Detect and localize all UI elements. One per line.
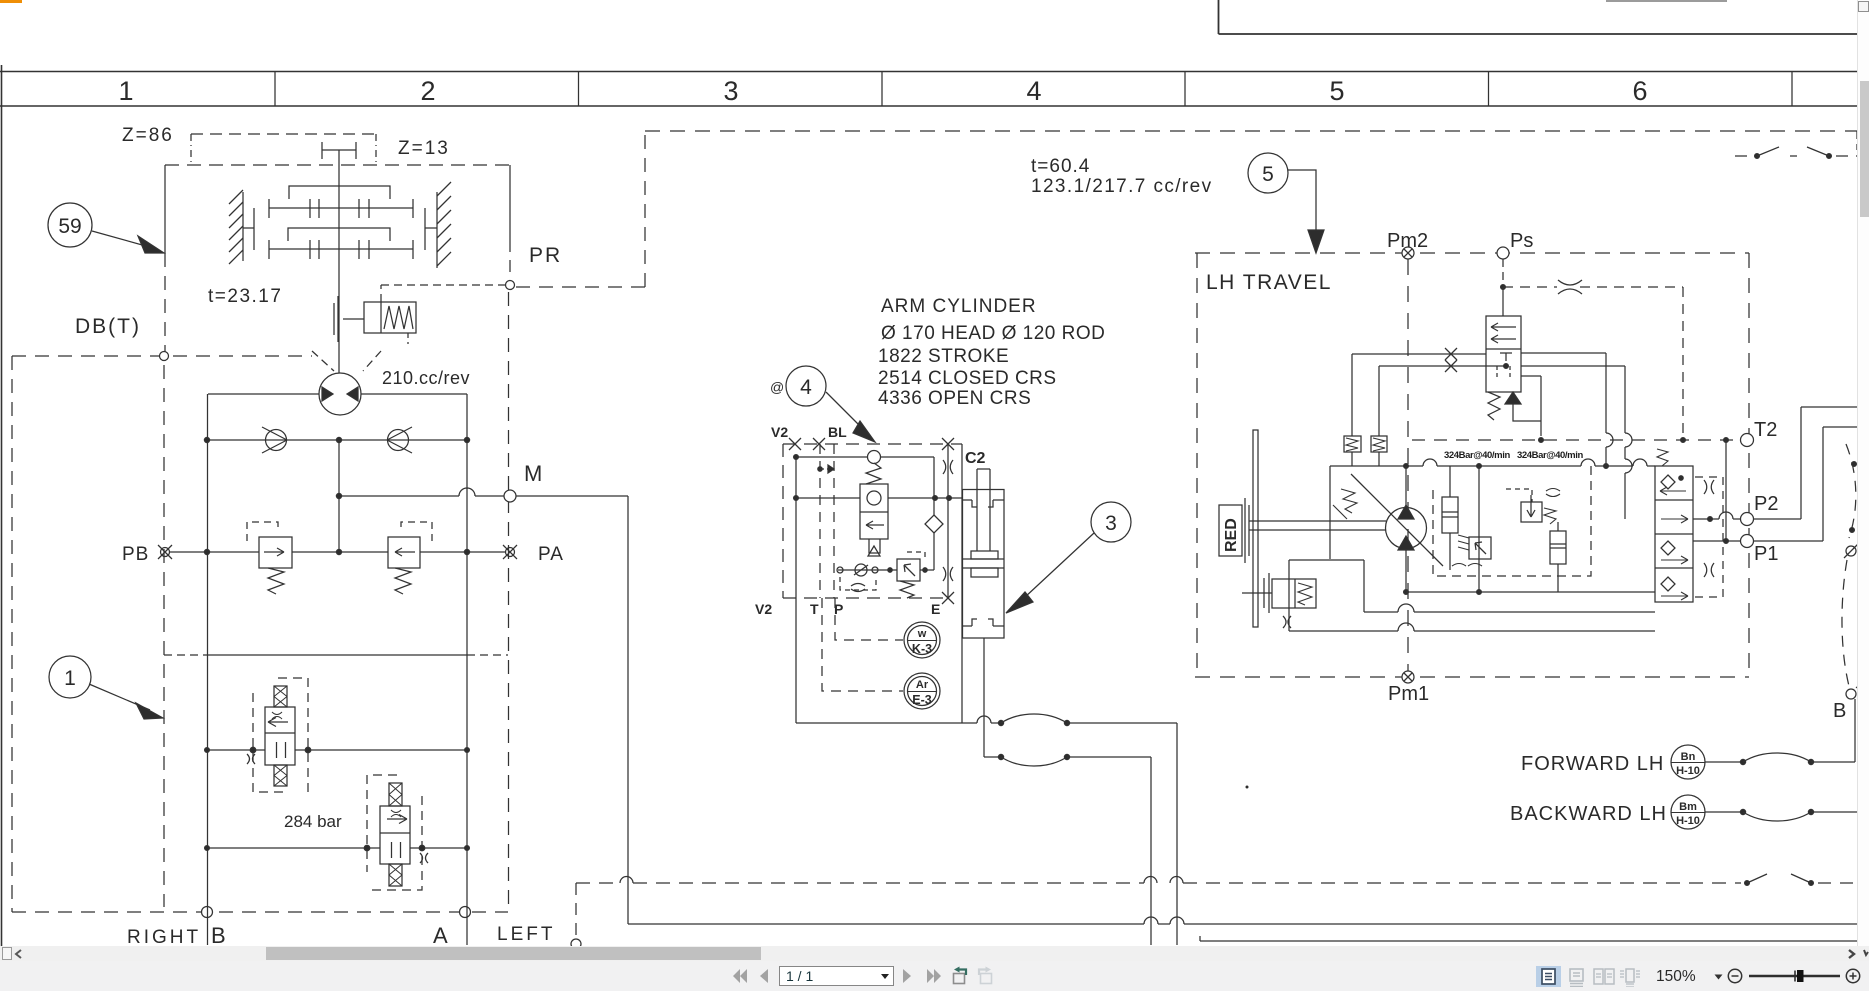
toolbar: last page button	[925, 967, 943, 985]
filter symbol	[925, 515, 943, 570]
T2 riser	[1725, 440, 1727, 541]
top right switch line	[1735, 147, 1869, 158]
toolbar background	[0, 961, 1869, 991]
port PB symbol	[158, 545, 172, 559]
torque limiter	[334, 296, 416, 342]
svg-text:T2: T2	[1754, 419, 1777, 441]
svg-text:@: @	[770, 379, 784, 395]
LH travel dashed envelope	[1195, 253, 1749, 677]
svg-text:B: B	[1833, 700, 1846, 722]
pilot control lines	[1352, 348, 1508, 436]
svg-text:3: 3	[723, 76, 738, 106]
vertical scrollbar track	[1857, 0, 1869, 947]
svg-text:324Bar@40/min: 324Bar@40/min	[1444, 450, 1510, 461]
port P2	[1741, 513, 1754, 526]
arm block top bypass line with check	[794, 451, 934, 516]
block1 inner dashed border	[163, 365, 165, 907]
brake pilot loop	[1289, 560, 1364, 631]
svg-text:LH TRAVEL: LH TRAVEL	[1206, 271, 1332, 294]
svg-text:P1: P1	[1754, 543, 1778, 565]
right housing wall hatch	[425, 182, 451, 268]
block1 bottom dashed border	[12, 911, 508, 913]
wire drop right 1	[1176, 723, 1178, 945]
RED tag	[1219, 498, 1249, 563]
toolbar: continuous view	[1564, 966, 1589, 987]
pump case drain dashed V	[312, 351, 381, 371]
horizontal scrollbar thumb	[266, 947, 761, 960]
toolbar: prev view icon	[949, 966, 969, 986]
svg-text:Ar: Ar	[916, 679, 929, 691]
svg-text:Z=86: Z=86	[122, 125, 174, 146]
block1 right dashed border	[508, 292, 510, 907]
svg-text:Bn: Bn	[1681, 751, 1696, 763]
bottom frame corner line	[1200, 936, 1869, 941]
cylinder drain line	[983, 638, 985, 757]
balloon 5	[1248, 153, 1324, 253]
horizontal scrollbar left corner icon	[2, 947, 12, 960]
gear train carrier 1	[289, 186, 390, 199]
arm block left feed line	[795, 457, 797, 723]
valve V1 dashed envelope	[253, 678, 308, 792]
svg-text:5: 5	[1329, 76, 1344, 106]
valve V2 dashed envelope	[367, 775, 422, 890]
label 324Bar	[1444, 450, 1583, 461]
P2 line	[1693, 407, 1869, 521]
check valve left	[262, 427, 287, 453]
zone number band	[0, 72, 1869, 107]
svg-text:H-10: H-10	[1676, 815, 1700, 827]
Pm2 center dashed line	[1407, 259, 1409, 671]
horizontal scrollbar right arrow	[1845, 948, 1869, 960]
input coupling dashed box	[191, 134, 376, 165]
pilot valve out lines	[1513, 376, 1543, 442]
toolbar: next view icon (disabled)	[976, 966, 996, 986]
port Ps	[1497, 247, 1509, 259]
svg-text:t=23.17: t=23.17	[208, 286, 282, 307]
mid tie line	[164, 654, 508, 656]
wire tank run with jump	[796, 716, 1001, 723]
toolbar: zoom dropdown caret	[1714, 974, 1723, 980]
block59 dashed top line	[165, 164, 510, 166]
check valve right	[387, 427, 412, 453]
svg-text:4336 OPEN CRS: 4336 OPEN CRS	[878, 388, 1031, 409]
motor displacement arrow	[1333, 474, 1443, 566]
svg-text:DB(T): DB(T)	[75, 315, 141, 338]
T P dashed spool lines	[818, 444, 834, 598]
block1 left outer dashed border	[11, 356, 13, 912]
inner pressure valve 2	[1506, 489, 1560, 525]
travel pilot valve	[1486, 316, 1521, 392]
port Pm2	[1402, 247, 1414, 259]
counterbalance dashed box	[1433, 465, 1591, 576]
tiny ref dot	[1246, 786, 1249, 789]
toolbar: single page view (selected)	[1536, 966, 1561, 987]
svg-text:BACKWARD LH: BACKWARD LH	[1510, 803, 1667, 825]
arm block inner right line	[947, 444, 949, 598]
svg-text:V2: V2	[771, 424, 788, 440]
svg-text:E-3: E-3	[912, 693, 932, 707]
svg-text:A: A	[433, 923, 448, 948]
svg-text:Ø 170 HEAD Ø 120 ROD: Ø 170 HEAD Ø 120 ROD	[881, 323, 1105, 344]
balloon 4	[770, 366, 875, 442]
tank return run with wide jump	[628, 917, 1869, 924]
cylinder C2 body	[963, 490, 1005, 639]
gear row 2	[269, 240, 413, 259]
main block right line	[466, 394, 468, 945]
svg-text:P2: P2	[1754, 493, 1778, 515]
counterbalance valve assembly	[1655, 449, 1693, 602]
inner relief valve	[1452, 535, 1491, 566]
svg-text:RED: RED	[1223, 518, 1240, 552]
node on DB line	[160, 352, 169, 361]
horizontal scrollbar left arrow	[13, 948, 25, 960]
arm block right edge line	[961, 444, 963, 723]
forward hose	[1705, 753, 1855, 765]
Ps feed line	[1501, 259, 1506, 316]
relief valve left	[247, 522, 292, 594]
reducing valve	[888, 552, 934, 598]
gear row 1	[269, 199, 413, 218]
svg-text:Ps: Ps	[1510, 230, 1533, 252]
svg-text:210.cc/rev: 210.cc/rev	[382, 368, 470, 388]
toolbar: two page continuous view	[1618, 966, 1646, 987]
svg-text:E: E	[931, 601, 940, 617]
zone numbers 1-6	[118, 76, 1647, 106]
svg-text:324Bar@40/min: 324Bar@40/min	[1517, 450, 1583, 461]
svg-text:ARM CYLINDER: ARM CYLINDER	[881, 296, 1037, 317]
wire drop right 2	[1150, 757, 1152, 945]
quick coupler arc right	[1842, 444, 1858, 686]
svg-text:284 bar: 284 bar	[284, 812, 342, 831]
balloon 1	[49, 656, 163, 719]
center riser to M	[338, 440, 340, 552]
backward hose	[1705, 809, 1869, 821]
vertical scrollbar top button	[1858, 1, 1869, 12]
toolbar: page box dropdown caret	[880, 973, 890, 980]
DB(T) dashed line	[12, 355, 312, 357]
K-3 dashed lead	[835, 598, 903, 640]
svg-text:LEFT: LEFT	[497, 924, 555, 945]
svg-text:1: 1	[64, 667, 76, 690]
relief valve line	[170, 549, 505, 554]
svg-text:w: w	[917, 628, 927, 640]
toolbar: zoom level text	[1656, 968, 1696, 986]
counterbalance dashed pilot box	[1695, 477, 1723, 597]
svg-text:Z=13: Z=13	[398, 138, 450, 159]
svg-text:3: 3	[1105, 512, 1117, 535]
gear train carrier 2	[288, 228, 390, 241]
travel motor	[1386, 505, 1427, 550]
lower line B	[205, 747, 470, 753]
toolbar: two page view	[1591, 966, 1619, 987]
port B node circle	[202, 907, 213, 918]
orange corner mark	[0, 0, 22, 3]
svg-text:Pm1: Pm1	[1388, 683, 1429, 705]
orifice symbols right edge	[943, 460, 953, 581]
svg-text:PR: PR	[529, 244, 562, 267]
node circle bottom left of dashed return	[571, 939, 581, 949]
motor drain	[1404, 549, 1655, 594]
toolbar: page number box	[779, 966, 894, 986]
svg-text:4: 4	[1026, 76, 1041, 106]
svg-text:2: 2	[420, 76, 435, 106]
svg-text:PA: PA	[538, 544, 564, 565]
PR riser line	[509, 165, 511, 280]
motor work lines	[1289, 604, 1655, 631]
svg-text:H-10: H-10	[1676, 765, 1700, 777]
brake actuator	[1242, 573, 1316, 628]
PR dashed route to LH travel	[516, 131, 1857, 287]
torque limiter pilot dashes	[381, 285, 505, 344]
svg-text:B: B	[211, 923, 226, 948]
inner capsule 2	[1550, 522, 1566, 592]
arm valve block dashed envelope	[783, 444, 962, 598]
page left border	[1, 65, 3, 946]
toolbar: first page button	[731, 967, 749, 985]
gauge K-3	[904, 622, 940, 658]
block59 left border	[164, 165, 166, 358]
svg-text:6: 6	[1632, 76, 1647, 106]
pump port line	[208, 393, 467, 395]
gear shaft center	[338, 150, 340, 373]
motor shaft	[1249, 521, 1386, 530]
long dashed pilot return	[576, 877, 1741, 938]
port PA symbol	[503, 545, 517, 559]
valve V2	[380, 783, 428, 886]
port P1	[1741, 535, 1754, 548]
holding valve U1	[860, 463, 888, 556]
arm block main line	[794, 496, 962, 501]
title block frame top right	[1219, 0, 1869, 34]
accumulator capsule	[1442, 466, 1458, 570]
coupling symbol	[322, 142, 356, 159]
svg-text:Bm: Bm	[1679, 801, 1697, 813]
hose 1	[998, 714, 1177, 726]
svg-text:PB: PB	[122, 544, 149, 565]
cylinder C2 rod	[977, 469, 990, 551]
port B symbol	[1846, 680, 1864, 699]
motor top loop	[1330, 459, 1655, 592]
valve V1	[247, 686, 295, 786]
check valve line	[204, 437, 469, 442]
port X marks on envelope	[789, 438, 954, 604]
port A node circle	[460, 907, 471, 918]
connector Bm H-10	[1671, 795, 1705, 829]
node M	[504, 490, 516, 502]
pilot valve solenoid triangle	[1505, 392, 1521, 404]
P1 line	[1693, 427, 1869, 543]
svg-text:5: 5	[1262, 163, 1274, 186]
gauge E-3	[904, 673, 940, 709]
lower line A	[205, 845, 470, 851]
balloon 59	[48, 203, 164, 253]
E-3 dashed lead	[822, 598, 903, 691]
svg-text:T: T	[810, 601, 819, 617]
bottom switch pair on dashed return	[1745, 874, 1869, 885]
port T2	[1741, 434, 1754, 447]
toolbar: zoom out button	[1727, 968, 1743, 984]
svg-text:1: 1	[118, 76, 133, 106]
main block left line	[207, 394, 209, 945]
svg-text:RIGHT: RIGHT	[127, 927, 201, 948]
shift spring capsules	[1344, 436, 1387, 466]
horizontal scrollbar track	[0, 946, 1869, 961]
toolbar: prev page button	[758, 967, 770, 985]
Ps pilot dashed branch	[1503, 280, 1683, 436]
connector Bn H-10	[1671, 745, 1705, 779]
toolbar: zoom in button	[1845, 968, 1861, 984]
M line with jump	[336, 488, 628, 499]
svg-text:t=60.4: t=60.4	[1031, 156, 1090, 177]
pilot check row	[837, 564, 897, 592]
svg-text:BL: BL	[828, 424, 847, 440]
svg-text:1822 STROKE: 1822 STROKE	[878, 346, 1009, 367]
T2 dashed line	[1412, 438, 1741, 443]
svg-text:59: 59	[58, 215, 81, 238]
balloon 3	[1006, 502, 1131, 613]
port Pm1	[1402, 671, 1414, 683]
arm cylinder note text	[878, 296, 1105, 409]
pilot valve spring	[1488, 392, 1500, 420]
svg-text:K-3: K-3	[912, 642, 932, 656]
M drop line	[627, 496, 629, 924]
toolbar: next page button	[901, 967, 913, 985]
svg-text:123.1/217.7 cc/rev: 123.1/217.7 cc/rev	[1031, 176, 1213, 197]
svg-text:2514 CLOSED CRS: 2514 CLOSED CRS	[878, 368, 1057, 389]
relief valve right	[388, 522, 432, 594]
node PR	[506, 281, 515, 290]
toolbar: zoom slider	[1746, 966, 1846, 986]
svg-text:4: 4	[800, 376, 812, 399]
brake disc	[1253, 430, 1258, 627]
svg-text:C2: C2	[965, 450, 986, 467]
svg-text:Pm2: Pm2	[1387, 230, 1428, 252]
svg-text:FORWARD LH: FORWARD LH	[1521, 753, 1664, 775]
hose 2	[984, 754, 1151, 766]
svg-text:V2: V2	[755, 601, 772, 617]
svg-text:M: M	[524, 461, 542, 486]
vertical scrollbar thumb	[1860, 81, 1869, 217]
B drop line	[1854, 699, 1856, 762]
pilot feed risers	[1521, 353, 1632, 519]
left housing wall hatch	[229, 190, 254, 264]
pump P1 circle	[319, 373, 361, 415]
